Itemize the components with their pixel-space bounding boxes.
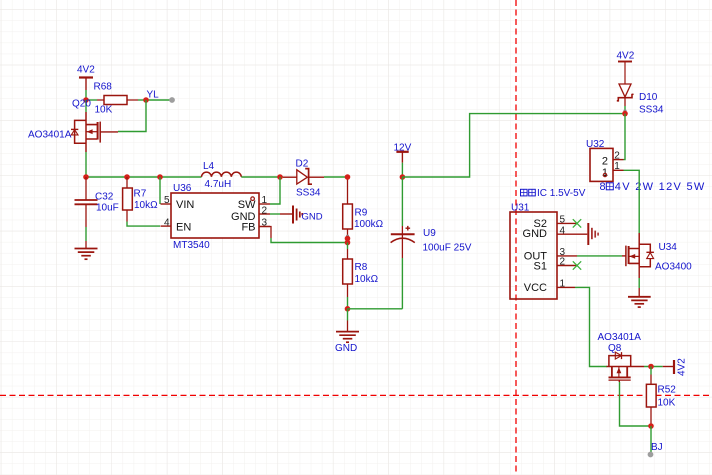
wire YL node to endpoint (146, 99, 172, 101)
wire ground node to U9 bottom (348, 308, 403, 310)
junction bus/C32 (83, 174, 89, 180)
svg-text:U34: U34 (659, 242, 678, 253)
wire U34 source to ground (638, 278, 640, 288)
wire SW node down to pin 1 (270, 177, 280, 204)
resistor R52 (646, 367, 676, 427)
wire Q8 drain to 4V2 (644, 366, 663, 368)
svg-text:GND: GND (523, 228, 548, 240)
wire D2 to R9 node (324, 176, 348, 178)
svg-text:2: 2 (560, 257, 566, 268)
power flag 4V2 (top left) (77, 65, 95, 91)
transistor U34 AO3400 (NMOS) (622, 233, 692, 278)
svg-text:GND: GND (302, 212, 323, 223)
svg-text:MT3540: MT3540 (173, 240, 210, 251)
ground (below U34) (628, 288, 651, 307)
pin 2 (U32) (613, 151, 624, 162)
capacitor C32 (75, 177, 119, 227)
pin 1 (VCC) (557, 278, 575, 289)
junction R9 bottom (345, 236, 351, 242)
pin end dot D10 (623, 109, 626, 112)
svg-text:4: 4 (560, 225, 566, 236)
pin 1 (SW) (259, 195, 270, 206)
svg-text:R7: R7 (134, 189, 147, 200)
svg-text:8: 8 (600, 181, 606, 193)
junction R9/D2 (345, 174, 351, 180)
wire 12V node down to U9 (401, 177, 403, 226)
junction at Q20 source (83, 97, 89, 103)
capacitor U9 100uF 25V (polarized) (391, 226, 472, 258)
svg-text:4V2: 4V2 (617, 51, 635, 62)
wire node BJ stub (650, 426, 652, 452)
pin 4 (EN) (161, 217, 172, 228)
junction SW node (277, 174, 283, 180)
sheet divider (horizontal dashed) (0, 394, 712, 396)
svg-text:10kΩ: 10kΩ (355, 274, 379, 285)
svg-text:U9: U9 (423, 228, 436, 239)
svg-text:Q20: Q20 (72, 99, 91, 110)
svg-text:U31: U31 (511, 203, 530, 214)
wire divider middle (347, 243, 349, 250)
pin 5 (S2) (557, 214, 577, 225)
svg-text:D10: D10 (639, 92, 658, 103)
svg-text:VCC: VCC (524, 282, 547, 294)
wire node to Q20 source (85, 100, 87, 112)
pin 4 (GND) (557, 225, 587, 236)
speaker U32 (586, 139, 613, 182)
svg-text:2: 2 (614, 151, 620, 162)
wire R7 to EN pin (127, 222, 160, 227)
junction bus/VIN (157, 174, 163, 180)
wire node down to U32 pin 2 (624, 114, 626, 160)
svg-text:1: 1 (560, 278, 566, 289)
wire 12V bus to right riser (402, 114, 625, 177)
power flag GND (sideways, at pin 2) (280, 206, 323, 224)
music IC U31 (510, 203, 557, 300)
svg-text:S1: S1 (534, 260, 547, 272)
svg-text:VIN: VIN (176, 199, 194, 211)
svg-text:R68: R68 (94, 82, 113, 93)
svg-text:AO3401A: AO3401A (28, 130, 72, 141)
wire R8 to ground node (347, 297, 349, 309)
wire U9 bottom (401, 258, 403, 309)
pin 2 (GND) (259, 205, 270, 216)
junction Q8/R52 (648, 364, 654, 370)
junction FB node (345, 240, 351, 246)
svg-text:1: 1 (614, 161, 620, 172)
junction 12V node (400, 174, 406, 180)
svg-text:4.7uH: 4.7uH (205, 179, 232, 190)
pin end dot R9 (346, 235, 349, 238)
ground (below C32) (75, 241, 98, 259)
svg-text:D2: D2 (296, 158, 309, 169)
svg-text:100kΩ: 100kΩ (354, 219, 384, 230)
svg-text:10uF: 10uF (96, 203, 119, 214)
diode D2 SS34 (296, 158, 325, 198)
pin 1 (U32) (613, 161, 624, 172)
no-connect X (S2) (573, 219, 581, 227)
ground (sideways, at U31 pin 4) (588, 223, 598, 245)
svg-text:4: 4 (164, 217, 170, 228)
svg-text:U32: U32 (586, 139, 605, 150)
svg-text:5: 5 (560, 214, 566, 225)
wire 12V to bus node (401, 163, 403, 177)
svg-text:BJ: BJ (651, 442, 663, 453)
svg-text:U36: U36 (173, 183, 192, 194)
wire C32 to ground (85, 227, 87, 241)
label 8ohm speaker value (600, 181, 706, 193)
wire OUT to U34 gate (577, 255, 622, 257)
svg-text:2: 2 (262, 205, 268, 216)
junction R52 bottom (648, 423, 654, 429)
no-connect X (S1) (573, 261, 581, 269)
svg-text:R52: R52 (658, 384, 677, 395)
transistor Q8 AO3401A (PMOS) (598, 332, 645, 382)
svg-text:L4: L4 (203, 161, 215, 172)
svg-text:100uF 25V: 100uF 25V (423, 242, 472, 253)
svg-text:R9: R9 (355, 207, 368, 218)
svg-text:C32: C32 (95, 192, 114, 203)
svg-text:EN: EN (176, 221, 191, 233)
junction ground node (345, 306, 351, 312)
svg-text:10K: 10K (658, 397, 676, 408)
svg-text:10kΩ: 10kΩ (134, 200, 158, 211)
wire main bus left (86, 176, 202, 178)
sheet divider (vertical dashed) (515, 0, 517, 475)
wire Q8 gate down (620, 382, 652, 426)
svg-text:10K: 10K (95, 105, 113, 116)
wire U32 pin1 to U34 drain (624, 170, 640, 233)
svg-text:SS34: SS34 (296, 188, 321, 199)
wire YL node down to Q20 gate (118, 100, 146, 132)
wire D2 anode lead (283, 176, 297, 178)
wire L4 to D2 (241, 176, 283, 178)
transistor Q20 AO3401A (PMOS) (28, 99, 118, 153)
resistor R7 (123, 177, 159, 222)
wire ground stub (347, 309, 349, 321)
power flag 4V2 (rotated, at Q8) (674, 358, 688, 376)
power flag 12V (394, 142, 412, 162)
inductor L4 (202, 161, 242, 190)
svg-text:AO3401A: AO3401A (598, 332, 642, 343)
svg-text:R8: R8 (355, 262, 368, 273)
power flag 4V2 (top right) (617, 51, 635, 85)
wire 4V2 to node (85, 90, 87, 100)
wire R68 to YL node (138, 99, 146, 101)
ground GND (below R8) (335, 321, 359, 354)
svg-text:2: 2 (602, 155, 608, 167)
svg-text:4V2: 4V2 (677, 358, 688, 376)
wire D10 to node (624, 106, 626, 114)
svg-text:AO3400: AO3400 (655, 261, 692, 272)
junction bus/R7 (124, 174, 130, 180)
node YL (143, 90, 159, 103)
pin 2 (S1) (557, 257, 577, 268)
svg-text:FB: FB (241, 221, 255, 233)
resistor R68 (94, 82, 139, 116)
svg-text:4V 2W 12V 5W: 4V 2W 12V 5W (615, 181, 706, 193)
op IC U36 MT3540 (171, 183, 259, 251)
power flag 4V2 stem (663, 366, 674, 368)
resistor R9 (343, 177, 384, 239)
wire node to R68 (86, 99, 97, 101)
svg-text:IC 1.5V-5V: IC 1.5V-5V (537, 188, 586, 199)
svg-text:5: 5 (164, 195, 170, 206)
pin 3 (FB) (259, 218, 270, 229)
svg-text:GND: GND (335, 343, 357, 354)
diode D10 SS34 (617, 84, 664, 115)
wire GND pin 2 to GND flag (270, 213, 280, 215)
junction D10 node (622, 111, 628, 117)
pin 5 (VIN) (161, 195, 172, 206)
unconnected endpoint BJ (grey) (648, 452, 654, 458)
svg-text:4V2: 4V2 (77, 65, 95, 76)
unconnected endpoint (grey) (169, 97, 175, 103)
pin 3 (OUT) (557, 247, 577, 258)
resistor R8 (343, 249, 379, 297)
wire bus to VIN pin (159, 177, 161, 204)
svg-text:SS34: SS34 (639, 104, 664, 115)
wire VCC to Q8 source (575, 287, 607, 366)
label music IC value (521, 188, 586, 199)
wire Q20 drain to bus (85, 152, 87, 177)
wire FB pin 3 to divider (259, 227, 348, 243)
